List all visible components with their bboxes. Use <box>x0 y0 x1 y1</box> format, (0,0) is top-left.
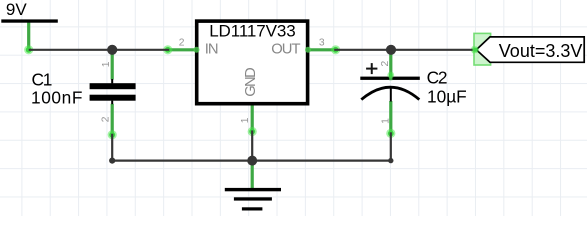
capacitor C2 pin 1 <box>389 101 392 135</box>
capacitor C2 pin 2 overlay across plate <box>389 74 392 80</box>
power symbol V1 9V pin <box>27 21 30 50</box>
net label text Vout=3.3V <box>499 41 583 61</box>
pin endpoint at 9V <box>24 45 33 54</box>
pin endpoint at flag <box>471 45 480 54</box>
op-amp U1 LD1117V33 body <box>197 21 308 104</box>
ground symbol <box>225 188 281 211</box>
capacitor C2 pin number 1 <box>380 118 391 124</box>
svg-text:2: 2 <box>179 38 185 49</box>
capacitor C2 value 10uF <box>427 86 467 106</box>
capacitor C1 pin number 1 <box>101 61 112 67</box>
wire from 9V to IC IN pin <box>29 49 170 51</box>
capacitor C2 polarity plus <box>366 63 377 74</box>
op-amp U1 pin 3 OUT leg <box>309 48 336 51</box>
svg-text:10µF: 10µF <box>427 86 467 106</box>
wire C1 bottom to ground rail corner <box>111 134 113 161</box>
junction node at C1 top <box>107 45 117 55</box>
pin endpoint at C2 bottom <box>386 129 395 138</box>
svg-text:C2: C2 <box>427 68 447 88</box>
pin endpoint at IC edge OUT <box>305 47 311 53</box>
svg-text:IN: IN <box>205 41 218 57</box>
op-amp U1 pin number 2 <box>179 38 185 49</box>
svg-text:LD1117V33: LD1117V33 <box>209 21 295 40</box>
pin endpoint at IC OUT <box>331 45 340 54</box>
capacitor C1 pin 1 <box>111 50 114 80</box>
capacitor C1 pin 2 <box>111 104 114 136</box>
svg-text:GND: GND <box>243 68 259 97</box>
wire corner node right <box>388 158 393 163</box>
svg-text:1: 1 <box>240 117 251 123</box>
op-amp U1 title LD1117V33 <box>209 21 295 40</box>
ground rail wire <box>112 160 391 162</box>
svg-text:100nF: 100nF <box>31 87 83 107</box>
op-amp U1 pin 1 GND leg <box>251 105 254 134</box>
op-amp U1 pin label OUT <box>271 41 300 57</box>
op-amp U1 pin label GND <box>243 68 259 97</box>
capacitor C1 label <box>32 70 52 90</box>
pin endpoint at IC IN <box>163 45 172 54</box>
svg-text:3: 3 <box>319 38 325 49</box>
svg-text:1: 1 <box>380 118 391 124</box>
wire from IC OUT pin to Vout flag <box>334 49 476 51</box>
pin endpoint at IC edge IN <box>194 47 200 53</box>
pin endpoint at C2 top <box>387 72 394 79</box>
wire IC GND pin to ground junction <box>251 130 253 160</box>
pin endpoint at IC GND <box>248 127 257 136</box>
capacitor C1 pin number 2 <box>101 116 112 122</box>
op-amp U1 pin number 3 <box>319 38 325 49</box>
capacitor C2 label <box>427 68 447 88</box>
net label highlight <box>474 33 491 65</box>
capacitor C1 value 100nF <box>31 87 83 107</box>
svg-text:OUT: OUT <box>271 41 300 57</box>
power symbol V1 label 9V <box>6 0 27 19</box>
svg-text:2: 2 <box>101 116 112 122</box>
junction node at ground <box>247 156 257 166</box>
wire corner node left <box>109 158 115 164</box>
pin endpoint at C1 bottom <box>108 130 117 139</box>
svg-text:9V: 9V <box>6 0 27 19</box>
wire C2 bottom to ground rail corner <box>390 132 392 160</box>
capacitor C2 symbol plates <box>360 77 420 102</box>
op-amp U1 pin 2 IN leg <box>166 48 195 51</box>
svg-text:Vout=3.3V: Vout=3.3V <box>499 41 583 61</box>
capacitor C2 pin number 2 <box>380 60 391 66</box>
capacitor C2 pin 2 <box>389 50 392 77</box>
ground symbol pin <box>251 161 254 189</box>
capacitor C1 symbol plates <box>90 79 136 104</box>
power symbol V1 bar <box>1 19 58 22</box>
junction node at C2 top <box>386 45 396 55</box>
net label pin endpoint <box>472 46 479 53</box>
svg-text:1: 1 <box>101 61 112 67</box>
svg-text:2: 2 <box>380 60 391 66</box>
op-amp U1 pin number 1 <box>240 117 251 123</box>
op-amp U1 pin label IN <box>205 41 218 57</box>
net label Vout flag <box>476 37 584 62</box>
